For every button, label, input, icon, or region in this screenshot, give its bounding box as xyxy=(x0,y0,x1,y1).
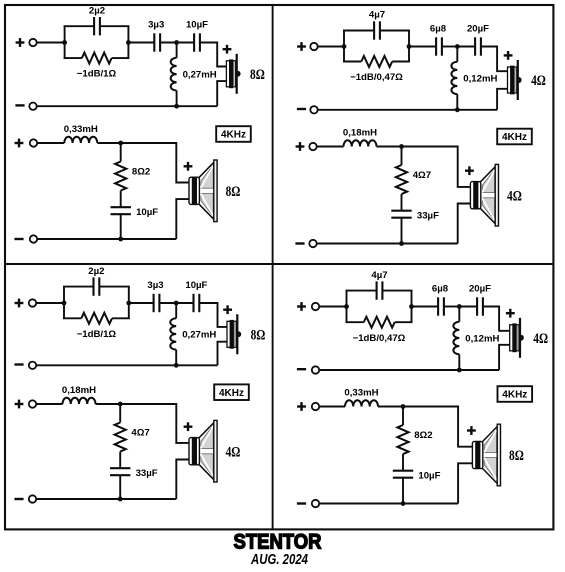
svg-text:8Ω: 8Ω xyxy=(250,67,265,83)
Q4 HP wire block bottom right xyxy=(395,321,413,323)
Q2 HP node shunt coil top xyxy=(455,44,460,49)
Q1 LP wire capacitor to rail xyxy=(120,214,122,239)
Q2 HP tweeter speaker 4Ω xyxy=(508,60,522,100)
Q3 HP wire input to parallel block xyxy=(36,302,64,304)
Q2 HP wire block bottom left xyxy=(343,61,361,63)
svg-text:3µ3: 3µ3 xyxy=(148,20,164,31)
Q2 HP plus input terminal xyxy=(297,42,306,51)
Q1 HP node shunt coil bottom xyxy=(174,104,179,109)
Q3 HP plus input terminal xyxy=(15,299,24,308)
Q4 HP node block right xyxy=(409,304,414,309)
Q3 HP node shunt coil top xyxy=(174,301,179,306)
Q4 LP woofer speaker 8Ω xyxy=(472,424,500,486)
Q2 LP minus input terminal xyxy=(295,242,304,244)
Q3 HP wire coil bottom xyxy=(175,350,177,366)
Q1 HP inductor 0,27mH (shunt) xyxy=(171,58,177,91)
Q3 LP capacitor 33µF (shunt) xyxy=(110,468,130,475)
Q2 HP wire cap2 to tweeter + xyxy=(481,47,508,72)
Q4 LP wire input to coil xyxy=(319,406,345,408)
Q4 HP wire block right side xyxy=(411,291,413,323)
Q1 LP woofer speaker 8Ω xyxy=(189,160,217,222)
Q4 LP wire coil to node xyxy=(378,406,403,408)
Q1 HP capacitor 10µF (series) xyxy=(194,33,200,51)
Q2 HP input terminal - xyxy=(310,106,317,113)
Q3 HP plus tweeter polarity xyxy=(223,305,232,314)
Q4 LP input terminal - xyxy=(312,500,319,507)
Q1 HP capacitor 3µ3 (series) xyxy=(154,33,160,51)
Q3 HP wire block bottom right xyxy=(112,317,130,319)
Q1 LP wire input to coil xyxy=(37,142,64,144)
Q4 HP wire cap1 to node xyxy=(444,306,459,308)
Q4 LP wire resistor to capacitor xyxy=(402,454,404,471)
Q2 HP node block right xyxy=(407,44,412,49)
Q3 HP wire block left side xyxy=(63,287,65,319)
Q3 HP node block left xyxy=(62,301,67,306)
svg-text:−1dB/0,47Ω: −1dB/0,47Ω xyxy=(350,72,403,83)
Q1 LP resistor 8Ω2 (shunt) xyxy=(115,162,126,191)
Q3 HP wire cap1 to node xyxy=(159,302,176,304)
Q2 LP input terminal - xyxy=(309,240,316,247)
Q4 HP wire rail to tweeter - xyxy=(499,345,510,370)
svg-text:0,18mH: 0,18mH xyxy=(343,128,377,139)
Q1 HP tweeter speaker 8Ω xyxy=(226,54,240,94)
Q3 HP wire block top left xyxy=(63,286,94,288)
Q1 HP wire block top right xyxy=(100,25,129,27)
Q2 HP wire rail to tweeter - xyxy=(497,89,507,110)
svg-text:4Ω7: 4Ω7 xyxy=(413,170,431,181)
Q2 LP plus input terminal xyxy=(296,142,305,151)
Q2 LP plus woofer polarity xyxy=(465,166,474,175)
Q4 HP minus input terminal xyxy=(297,368,306,370)
svg-text:6µ8: 6µ8 xyxy=(432,284,449,295)
svg-text:0,12mH: 0,12mH xyxy=(465,333,499,344)
Q4 HP wire input to parallel block xyxy=(319,306,346,308)
Q1 LP wire to shunt resistor xyxy=(120,143,122,162)
Q3 HP minus input terminal xyxy=(14,363,23,365)
Q4 HP wire coil bottom xyxy=(458,354,460,370)
Q1 HP input terminal - xyxy=(29,103,36,110)
svg-text:0,12mH: 0,12mH xyxy=(463,73,497,84)
Q1 LP plus input terminal xyxy=(15,139,24,148)
svg-text:4KHz: 4KHz xyxy=(502,132,527,143)
Q4 LP wire node to woofer + xyxy=(403,407,473,447)
Q3 HP node shunt coil bottom xyxy=(174,363,179,368)
Q3 HP wire block bottom left xyxy=(63,317,81,319)
Q2 HP wire block right side xyxy=(408,31,410,62)
Q4 LP plus woofer polarity xyxy=(467,426,476,435)
Q2 LP resistor 4Ω7 (shunt) xyxy=(396,165,407,194)
Q3 LP resistor 4Ω7 (shunt) xyxy=(115,423,126,452)
Q2 LP wire rail to woofer - xyxy=(458,204,472,244)
Q4 LP wire bottom rail xyxy=(319,503,458,505)
svg-text:8Ω: 8Ω xyxy=(509,448,524,464)
svg-text:STENTOR: STENTOR xyxy=(234,531,322,554)
Q1 HP wire cap2 to tweeter + xyxy=(200,43,227,67)
svg-text:2µ2: 2µ2 xyxy=(89,5,105,16)
Q4 HP plus input terminal xyxy=(297,302,306,311)
svg-text:4Ω: 4Ω xyxy=(507,188,522,204)
svg-text:0,33mH: 0,33mH xyxy=(64,124,98,135)
svg-text:2µ2: 2µ2 xyxy=(88,266,104,277)
Q4 HP tweeter speaker 4Ω xyxy=(510,318,524,358)
Q2 HP wire input to parallel block xyxy=(318,46,344,48)
Q2 HP wire bottom rail xyxy=(318,109,497,111)
Q2 HP node shunt coil bottom xyxy=(455,107,460,112)
Q4 HP node block left xyxy=(344,304,349,309)
Q3 HP wire block top right xyxy=(99,286,130,288)
Q1 HP wire cap1 to node xyxy=(160,42,177,44)
Q4 HP capacitor 6µ8 (series) xyxy=(438,297,444,315)
Q4 HP capacitor 20µF (series) xyxy=(477,297,483,315)
Q4 HP input terminal - xyxy=(312,366,319,373)
Q2 HP minus input terminal xyxy=(297,108,306,110)
Q3 LP node shunt bottom xyxy=(118,497,123,502)
Q4 LP wire capacitor to rail xyxy=(402,478,404,504)
Q2 LP inductor 0,18mH (series) xyxy=(344,140,377,146)
Q4 LP node shunt bottom xyxy=(401,501,406,506)
Q3 LP woofer speaker 4Ω xyxy=(189,420,217,482)
Q1 HP wire input to parallel block xyxy=(37,42,65,44)
Q1 LP crossover frequency box 4KHz xyxy=(216,126,251,142)
Q3 LP plus input terminal xyxy=(15,400,24,409)
Q2 LP crossover frequency box 4KHz xyxy=(497,129,532,145)
svg-text:33µF: 33µF xyxy=(136,468,158,479)
Q3 LP node shunt top xyxy=(118,402,123,407)
svg-text:4µ7: 4µ7 xyxy=(371,270,387,281)
Q1 HP capacitor 2µ2 (parallel) xyxy=(94,17,100,35)
Q1 HP wire coil top xyxy=(176,43,178,58)
Q1 HP node block right xyxy=(126,40,131,45)
Q4 HP input terminal + xyxy=(312,303,319,310)
Q2 HP wire block left side xyxy=(343,31,345,62)
Q2 HP input terminal + xyxy=(310,43,317,50)
Q4 HP resistor attenuation −1dB/0,47Ω xyxy=(364,317,395,328)
Q1 HP wire block bottom right xyxy=(112,57,130,59)
Q2 HP wire block top left xyxy=(343,30,374,32)
Q1 HP input terminal + xyxy=(29,39,36,46)
svg-text:4Ω: 4Ω xyxy=(531,73,546,89)
Q3 HP capacitor 10µF (series) xyxy=(194,294,200,312)
Q1 LP inductor 0,33mH (series) xyxy=(64,137,97,143)
Q1 HP wire block top left xyxy=(64,25,95,27)
Q1 LP wire bottom rail xyxy=(37,238,176,240)
Q1 HP plus tweeter polarity xyxy=(223,45,232,54)
svg-text:−1dB/1Ω: −1dB/1Ω xyxy=(77,329,117,340)
Q2 LP woofer speaker 4Ω xyxy=(470,164,498,226)
Q1 LP wire coil to node xyxy=(97,142,120,144)
Q4 HP node shunt coil bottom xyxy=(457,368,462,373)
Q4 HP node shunt coil top xyxy=(457,304,462,309)
Q1 LP node shunt bottom xyxy=(118,237,123,242)
Q4 LP inductor 0,33mH (series) xyxy=(345,400,378,406)
svg-text:4KHz: 4KHz xyxy=(502,390,527,401)
Q4 LP crossover frequency box 4KHz xyxy=(498,386,533,402)
Q3 HP wire rail to tweeter - xyxy=(218,342,228,366)
Q1 LP input terminal + xyxy=(30,139,37,146)
Q3 HP input terminal + xyxy=(29,299,36,306)
Q4 HP wire bottom rail xyxy=(319,369,499,371)
Q3 HP node block right xyxy=(126,301,131,306)
Q3 HP wire node to cap 2 xyxy=(176,302,193,304)
Q1 LP plus woofer polarity xyxy=(184,162,193,171)
Q1 HP node block left xyxy=(62,40,67,45)
Q2 LP capacitor 33µF (shunt) xyxy=(391,211,411,218)
Q3 HP capacitor 2µ2 (parallel) xyxy=(94,277,100,295)
svg-text:6µ8: 6µ8 xyxy=(430,24,447,35)
svg-text:10µF: 10µF xyxy=(185,280,207,291)
svg-text:20µF: 20µF xyxy=(467,24,489,35)
svg-text:8Ω2: 8Ω2 xyxy=(132,167,150,178)
Q4 LP plus input terminal xyxy=(297,402,306,411)
Q1 LP capacitor 10µF (shunt) xyxy=(111,207,131,214)
Q4 LP capacitor 10µF (shunt) xyxy=(393,471,413,478)
Q2 LP wire resistor to capacitor xyxy=(401,194,403,211)
svg-text:−1dB/0,47Ω: −1dB/0,47Ω xyxy=(353,333,406,344)
Q2 LP wire capacitor to rail xyxy=(401,218,403,244)
svg-text:8Ω: 8Ω xyxy=(251,328,266,344)
divider horizontal center line xyxy=(5,263,553,265)
Q4 LP resistor 8Ω2 (shunt) xyxy=(397,425,408,454)
Q3 HP input terminal - xyxy=(29,362,36,369)
Q1 HP minus input terminal xyxy=(15,104,24,106)
Q4 LP node shunt top xyxy=(401,404,406,409)
Q2 LP wire coil to node xyxy=(377,146,402,148)
Q4 LP wire to shunt resistor xyxy=(402,407,404,426)
Q3 HP wire cap2 to tweeter + xyxy=(199,303,227,327)
Q4 HP wire to series cap 1 xyxy=(412,306,439,308)
Q4 HP wire coil top xyxy=(458,307,460,322)
Q2 HP wire block bottom right xyxy=(392,61,410,63)
Q1 LP node shunt top xyxy=(118,141,123,146)
Q3 LP plus woofer polarity xyxy=(184,422,193,431)
svg-text:4Ω: 4Ω xyxy=(226,444,241,460)
Q4 HP capacitor 4µ7 (parallel) xyxy=(377,281,383,299)
Q3 LP wire capacitor to rail xyxy=(119,475,121,499)
Q4 HP wire block top left xyxy=(346,290,377,292)
Q1 HP wire to series cap 1 xyxy=(128,42,154,44)
Q4 HP wire block bottom left xyxy=(346,321,364,323)
Q3 LP input terminal - xyxy=(29,495,36,502)
svg-text:4Ω7: 4Ω7 xyxy=(131,428,149,439)
svg-text:33µF: 33µF xyxy=(417,211,439,222)
Q3 LP input terminal + xyxy=(29,400,36,407)
svg-text:4Ω: 4Ω xyxy=(533,331,548,347)
svg-text:0,33mH: 0,33mH xyxy=(344,388,378,399)
svg-text:−1dB/1Ω: −1dB/1Ω xyxy=(77,69,117,80)
Q3 HP inductor 0,27mH (shunt) xyxy=(170,318,176,349)
Q4 HP wire block top right xyxy=(382,290,412,292)
Q3 LP wire node to woofer + xyxy=(120,404,190,443)
Q2 HP capacitor 20µF (series) xyxy=(475,37,481,55)
divider vertical center line xyxy=(272,5,274,529)
Q2 LP wire node to woofer + xyxy=(402,147,472,187)
Q3 LP inductor 0,18mH (series) xyxy=(63,398,96,404)
Q3 HP resistor attenuation −1dB/1Ω xyxy=(81,313,112,324)
Q3 HP wire to series cap 1 xyxy=(129,302,154,304)
Q2 HP wire coil bottom xyxy=(456,94,458,110)
svg-text:0,27mH: 0,27mH xyxy=(182,329,216,340)
svg-text:20µF: 20µF xyxy=(469,284,491,295)
Q2 HP node block left xyxy=(342,44,347,49)
Q1 HP wire node to cap 2 xyxy=(177,42,195,44)
svg-text:4KHz: 4KHz xyxy=(221,130,246,141)
svg-text:8Ω: 8Ω xyxy=(226,184,241,200)
Q2 HP wire coil top xyxy=(456,47,458,62)
Q4 LP minus input terminal xyxy=(297,502,306,504)
Q4 HP wire cap2 to tweeter + xyxy=(483,307,510,331)
Q3 LP wire coil to node xyxy=(96,403,121,405)
Q3 LP wire rail to woofer - xyxy=(176,460,190,500)
Q4 HP inductor 0,12mH (shunt) xyxy=(453,322,459,355)
svg-text:4KHz: 4KHz xyxy=(219,388,244,399)
Q4 HP wire block left side xyxy=(346,291,348,323)
Q3 HP capacitor 3µ3 (series) xyxy=(154,294,160,312)
Q2 HP capacitor 6µ8 (series) xyxy=(436,37,442,55)
Q4 HP plus tweeter polarity xyxy=(506,309,515,318)
Q3 LP wire bottom rail xyxy=(36,498,176,500)
Q2 HP wire node to cap 2 xyxy=(457,46,475,48)
Q3 LP minus input terminal xyxy=(14,498,23,500)
Q2 LP node shunt top xyxy=(399,144,404,149)
Q3 HP wire bottom rail xyxy=(36,364,217,366)
Q1 LP minus input terminal xyxy=(14,238,23,240)
Q3 LP wire to shunt resistor xyxy=(119,404,121,423)
svg-text:0,18mH: 0,18mH xyxy=(62,385,96,396)
Q2 LP wire bottom rail xyxy=(317,243,458,245)
Q1 HP node shunt coil top xyxy=(174,40,179,45)
Q3 HP wire block right side xyxy=(128,287,130,319)
Q2 HP plus tweeter polarity xyxy=(504,51,513,60)
svg-text:3µ3: 3µ3 xyxy=(147,280,163,291)
Q1 HP wire bottom rail xyxy=(37,105,218,107)
Q1 LP input terminal - xyxy=(30,235,37,242)
Q1 LP wire node to woofer + xyxy=(121,143,190,183)
svg-text:10µF: 10µF xyxy=(186,20,208,31)
Q4 LP input terminal + xyxy=(312,403,319,410)
Q2 HP capacitor 4µ7 (parallel) xyxy=(374,21,380,39)
svg-text:10µF: 10µF xyxy=(136,207,158,218)
Q4 HP wire node to cap 2 xyxy=(459,306,477,308)
Q1 HP resistor attenuation −1dB/1Ω xyxy=(82,53,112,64)
svg-text:8Ω2: 8Ω2 xyxy=(414,430,432,441)
Q3 HP tweeter speaker 8Ω xyxy=(227,314,241,354)
Q3 LP wire input to coil xyxy=(36,403,62,405)
Q1 HP wire coil bottom xyxy=(176,91,178,107)
Q1 HP wire block right side xyxy=(127,26,129,58)
Q1 LP wire resistor to capacitor xyxy=(120,191,122,208)
Q2 LP wire to shunt resistor xyxy=(401,147,403,166)
Q2 LP wire input to coil xyxy=(317,146,344,148)
Q2 HP resistor attenuation −1dB/0,47Ω xyxy=(361,56,392,67)
Q4 LP wire rail to woofer - xyxy=(458,463,473,503)
svg-text:AUG. 2024: AUG. 2024 xyxy=(250,552,308,567)
Q3 HP wire coil top xyxy=(175,303,177,318)
svg-text:4µ7: 4µ7 xyxy=(369,10,385,21)
Q1 HP wire rail to tweeter - xyxy=(217,81,226,106)
Q3 LP crossover frequency box 4KHz xyxy=(214,384,249,400)
Q2 HP wire cap1 to node xyxy=(442,46,457,48)
svg-text:10µF: 10µF xyxy=(418,471,440,482)
Q2 LP input terminal + xyxy=(309,143,316,150)
Q2 HP wire to series cap 1 xyxy=(409,46,436,48)
Q2 HP wire block top right xyxy=(380,30,410,32)
svg-text:0,27mH: 0,27mH xyxy=(183,70,217,81)
Q1 LP wire rail to woofer - xyxy=(176,199,190,239)
Q3 LP wire resistor to capacitor xyxy=(119,452,121,469)
Q1 HP wire block left side xyxy=(64,26,66,58)
Q1 HP plus input terminal xyxy=(16,38,25,47)
Q2 LP node shunt bottom xyxy=(399,241,404,246)
Q2 HP inductor 0,12mH (shunt) xyxy=(451,62,457,94)
Q1 HP wire block bottom left xyxy=(64,57,82,59)
